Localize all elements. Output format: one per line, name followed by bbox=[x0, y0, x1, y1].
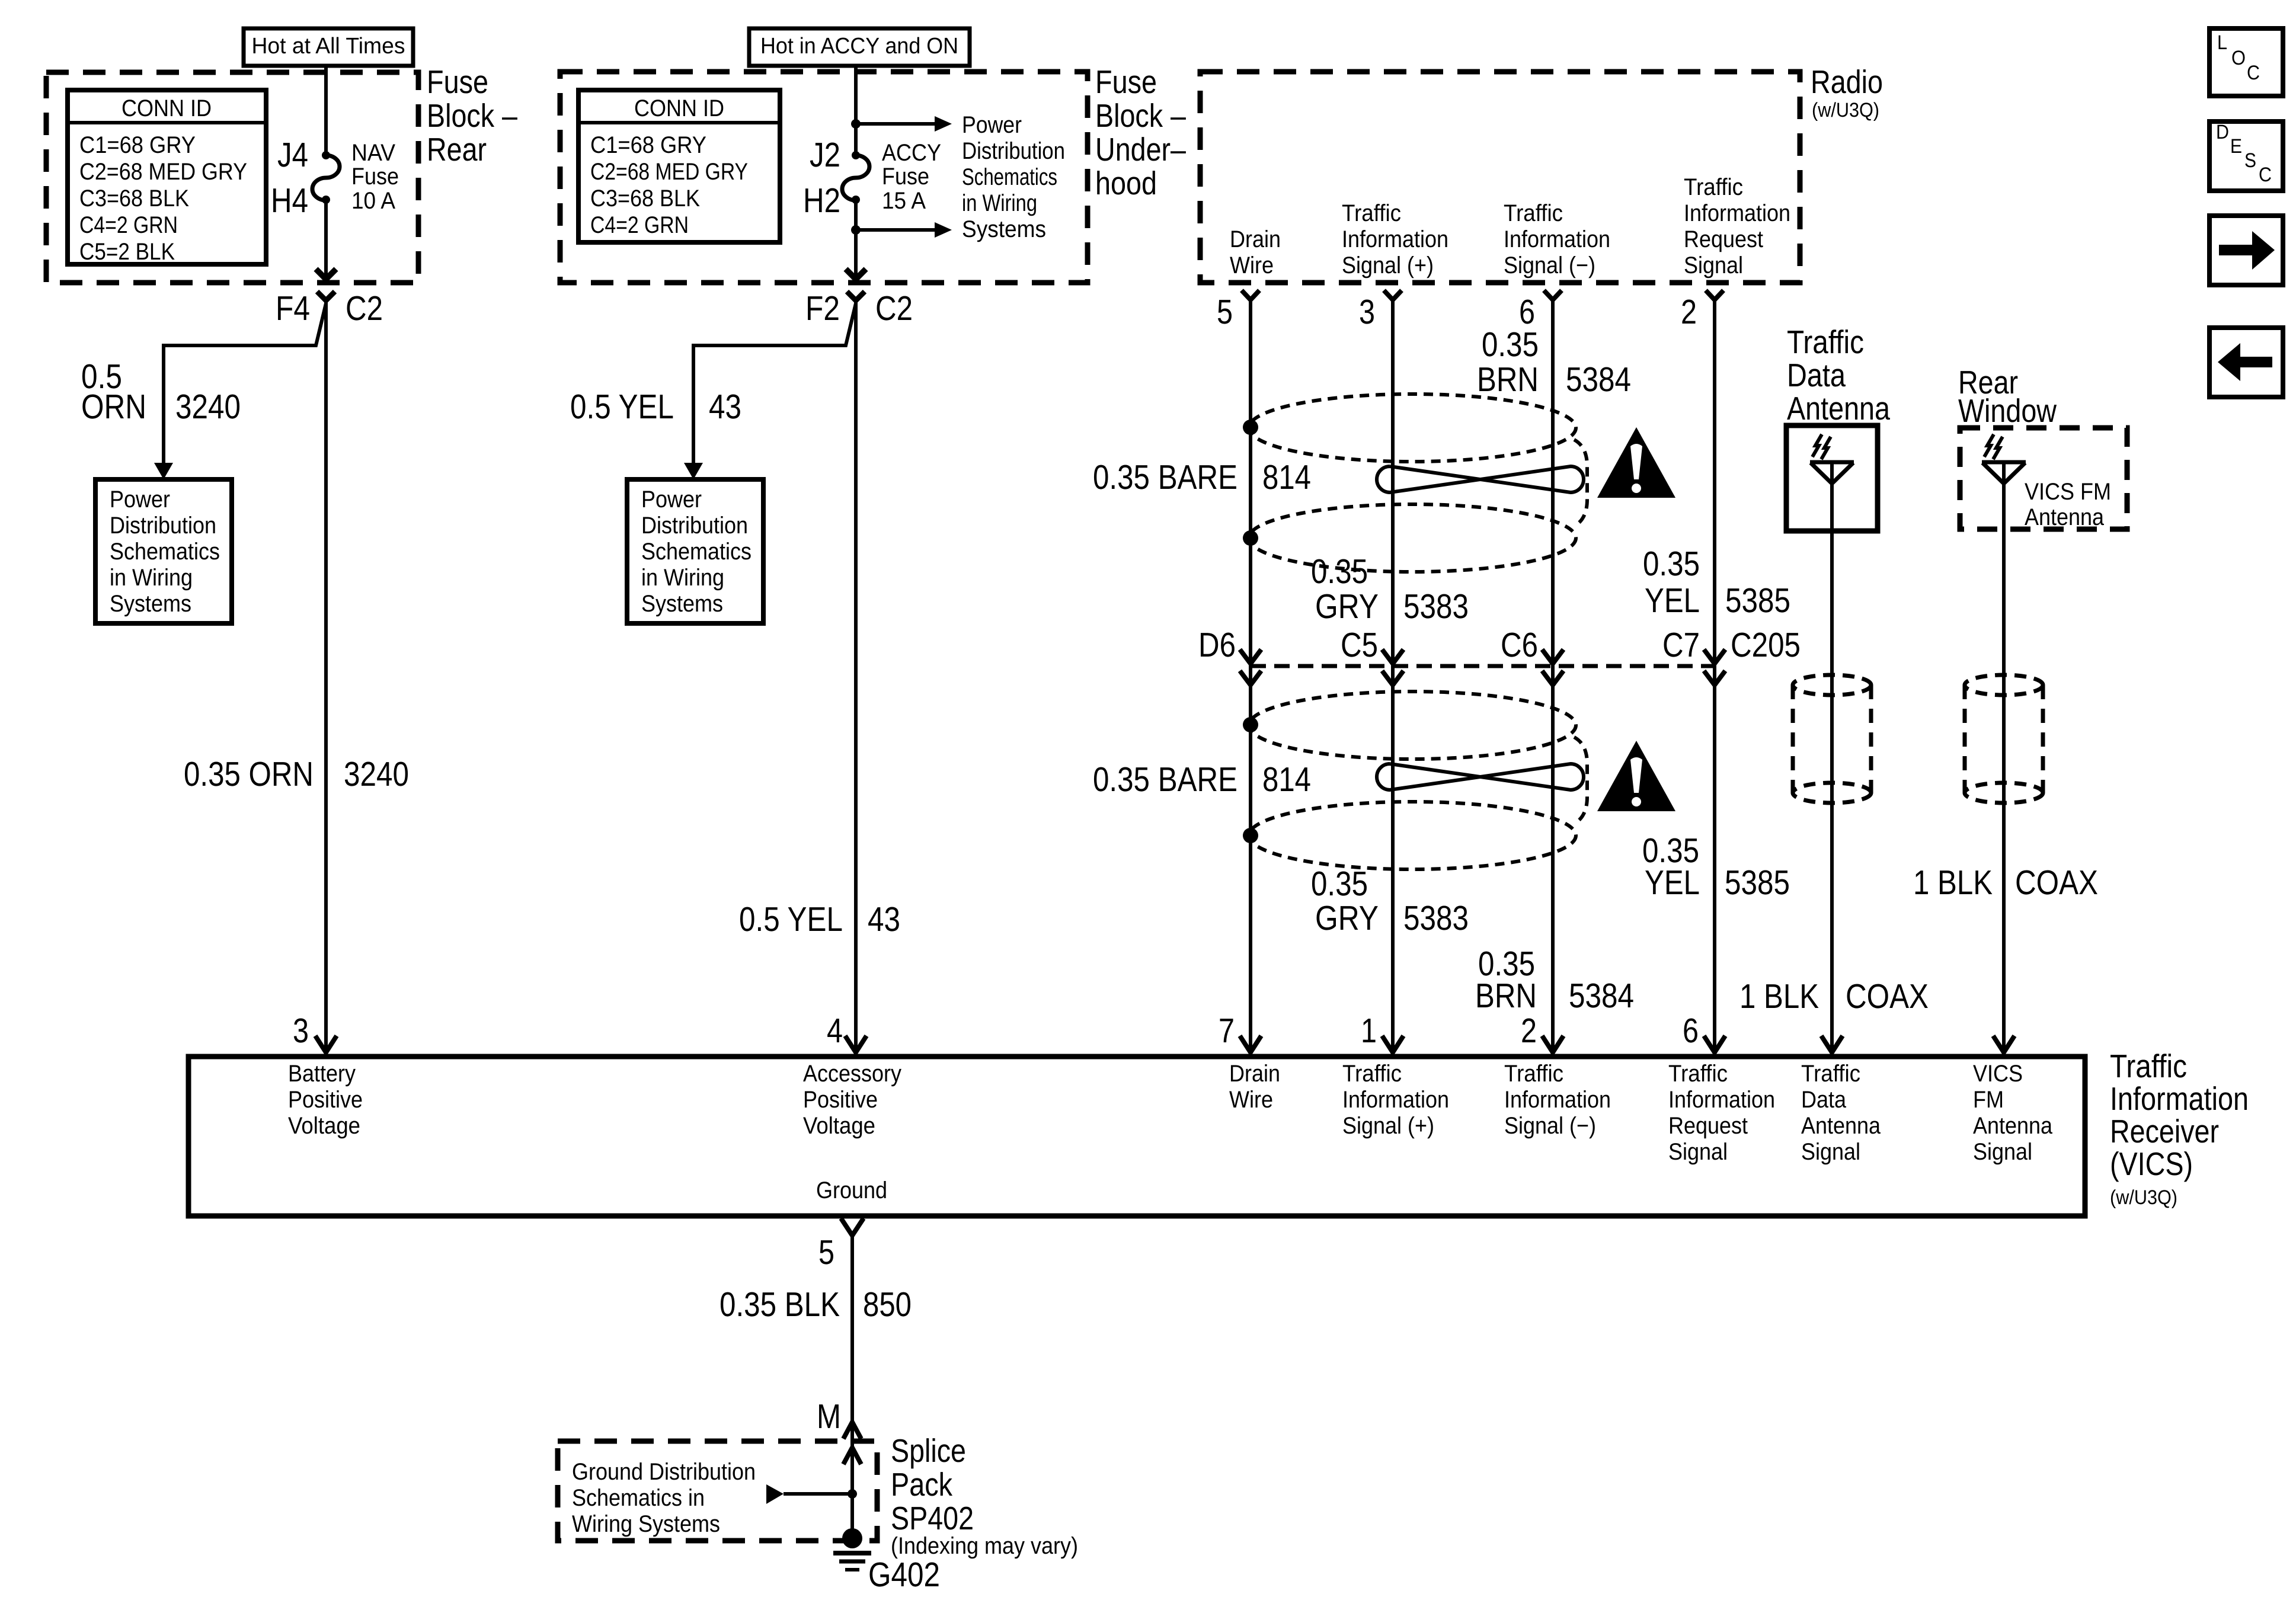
svg-text:Power: Power bbox=[962, 112, 1022, 138]
svg-text:3: 3 bbox=[1359, 293, 1375, 331]
svg-text:in Wiring: in Wiring bbox=[641, 565, 724, 591]
svg-text:0.35 BARE: 0.35 BARE bbox=[1093, 760, 1237, 799]
svg-text:Signal: Signal bbox=[1801, 1139, 1860, 1165]
svg-text:1 BLK: 1 BLK bbox=[1913, 863, 1993, 902]
svg-text:in Wiring: in Wiring bbox=[110, 565, 193, 591]
svg-text:VICS: VICS bbox=[1973, 1061, 2023, 1087]
svg-text:Wire: Wire bbox=[1230, 252, 1274, 279]
svg-text:0.5 YEL: 0.5 YEL bbox=[739, 900, 843, 939]
svg-text:10 A: 10 A bbox=[351, 188, 395, 214]
svg-text:5384: 5384 bbox=[1566, 360, 1631, 399]
svg-text:Traffic: Traffic bbox=[1801, 1061, 1860, 1087]
svg-text:Voltage: Voltage bbox=[288, 1113, 360, 1139]
svg-text:ACCY: ACCY bbox=[882, 140, 941, 166]
svg-text:6: 6 bbox=[1683, 1012, 1699, 1050]
svg-text:0.35: 0.35 bbox=[1482, 325, 1539, 364]
svg-text:Data: Data bbox=[1787, 357, 1846, 393]
svg-text:Hot at All Times: Hot at All Times bbox=[252, 34, 405, 59]
svg-text:0.35 BLK: 0.35 BLK bbox=[720, 1285, 840, 1324]
svg-text:0.35: 0.35 bbox=[1311, 865, 1368, 903]
svg-text:GRY: GRY bbox=[1315, 899, 1379, 937]
svg-text:Signal (+): Signal (+) bbox=[1342, 1113, 1434, 1139]
svg-text:5383: 5383 bbox=[1403, 899, 1469, 937]
svg-text:4: 4 bbox=[827, 1012, 843, 1050]
svg-text:Fuse: Fuse bbox=[427, 63, 488, 100]
svg-text:YEL: YEL bbox=[1645, 863, 1700, 902]
svg-text:5: 5 bbox=[818, 1233, 834, 1272]
svg-text:814: 814 bbox=[1262, 458, 1311, 497]
svg-text:Under–: Under– bbox=[1095, 131, 1186, 168]
svg-text:Fuse: Fuse bbox=[1095, 63, 1157, 100]
svg-text:G402: G402 bbox=[868, 1555, 940, 1594]
svg-text:Antenna: Antenna bbox=[1801, 1113, 1881, 1139]
svg-text:(w/U3Q): (w/U3Q) bbox=[1812, 99, 1879, 121]
svg-text:J4: J4 bbox=[277, 136, 308, 174]
svg-text:Information: Information bbox=[1342, 1087, 1449, 1113]
svg-text:O: O bbox=[2231, 47, 2246, 69]
svg-text:J2: J2 bbox=[810, 136, 840, 174]
svg-text:GRY: GRY bbox=[1315, 587, 1379, 626]
svg-text:BRN: BRN bbox=[1475, 977, 1537, 1015]
svg-text:Window: Window bbox=[1958, 392, 2057, 429]
svg-text:Traffic: Traffic bbox=[2110, 1048, 2187, 1084]
svg-text:Information: Information bbox=[2110, 1080, 2249, 1117]
svg-text:43: 43 bbox=[709, 388, 741, 426]
svg-text:Traffic: Traffic bbox=[1504, 200, 1563, 226]
svg-text:(VICS): (VICS) bbox=[2110, 1145, 2193, 1182]
svg-text:Signal (−): Signal (−) bbox=[1504, 1113, 1596, 1139]
svg-text:L: L bbox=[2217, 31, 2227, 54]
svg-text:Signal: Signal bbox=[1668, 1139, 1728, 1165]
svg-text:Distribution: Distribution bbox=[110, 513, 216, 539]
svg-text:Information: Information bbox=[1504, 226, 1610, 252]
svg-text:C2: C2 bbox=[875, 289, 913, 328]
svg-text:Information: Information bbox=[1504, 1087, 1611, 1113]
svg-text:NAV: NAV bbox=[351, 140, 395, 166]
svg-text:Distribution: Distribution bbox=[641, 513, 748, 539]
svg-text:C4=2 GRN: C4=2 GRN bbox=[590, 212, 689, 238]
svg-text:43: 43 bbox=[868, 900, 900, 939]
svg-text:(Indexing may vary): (Indexing may vary) bbox=[891, 1533, 1078, 1559]
svg-text:Antenna: Antenna bbox=[1787, 390, 1890, 427]
svg-text:F4: F4 bbox=[276, 289, 310, 328]
svg-text:Systems: Systems bbox=[110, 591, 191, 617]
svg-text:C1=68 GRY: C1=68 GRY bbox=[590, 132, 706, 158]
svg-text:Positive: Positive bbox=[288, 1087, 363, 1113]
svg-text:2: 2 bbox=[1681, 293, 1697, 331]
svg-text:ORN: ORN bbox=[81, 388, 146, 426]
svg-text:CONN ID: CONN ID bbox=[634, 95, 724, 121]
svg-text:Signal (−): Signal (−) bbox=[1504, 252, 1595, 279]
svg-text:C5: C5 bbox=[1341, 626, 1378, 664]
svg-text:15 A: 15 A bbox=[882, 188, 926, 214]
svg-text:Battery: Battery bbox=[288, 1061, 356, 1087]
svg-text:M: M bbox=[817, 1397, 841, 1436]
svg-text:D: D bbox=[2216, 121, 2229, 143]
svg-text:FM: FM bbox=[1973, 1087, 2004, 1113]
svg-text:C: C bbox=[2259, 164, 2272, 186]
svg-text:Traffic: Traffic bbox=[1504, 1061, 1563, 1087]
svg-text:0.5 YEL: 0.5 YEL bbox=[570, 388, 674, 426]
svg-text:C2=68 MED GRY: C2=68 MED GRY bbox=[79, 159, 247, 185]
svg-text:3240: 3240 bbox=[175, 388, 241, 426]
svg-text:Schematics: Schematics bbox=[110, 539, 220, 565]
svg-text:Pack: Pack bbox=[891, 1466, 952, 1503]
svg-text:Rear: Rear bbox=[427, 131, 487, 168]
svg-text:814: 814 bbox=[1262, 760, 1311, 799]
svg-text:Traffic: Traffic bbox=[1787, 324, 1864, 360]
svg-text:0.35 ORN: 0.35 ORN bbox=[184, 755, 314, 793]
svg-text:Information: Information bbox=[1342, 226, 1448, 252]
svg-text:Fuse: Fuse bbox=[351, 164, 399, 190]
svg-text:850: 850 bbox=[863, 1285, 912, 1324]
svg-text:C4=2 GRN: C4=2 GRN bbox=[79, 212, 178, 238]
svg-text:Positive: Positive bbox=[803, 1087, 878, 1113]
svg-text:Wiring Systems: Wiring Systems bbox=[572, 1511, 720, 1537]
svg-text:Splice: Splice bbox=[891, 1432, 966, 1469]
svg-text:Data: Data bbox=[1801, 1087, 1847, 1113]
svg-text:Receiver: Receiver bbox=[2110, 1113, 2219, 1150]
svg-text:Power: Power bbox=[110, 486, 170, 513]
svg-text:C2: C2 bbox=[346, 289, 383, 328]
svg-text:S: S bbox=[2244, 149, 2256, 172]
svg-text:C7: C7 bbox=[1662, 626, 1700, 664]
svg-text:in Wiring: in Wiring bbox=[962, 190, 1037, 216]
svg-text:Signal (+): Signal (+) bbox=[1342, 252, 1434, 279]
svg-text:7: 7 bbox=[1219, 1012, 1235, 1050]
svg-text:Schematics: Schematics bbox=[641, 539, 752, 565]
svg-text:1 BLK: 1 BLK bbox=[1739, 977, 1819, 1016]
svg-text:C6: C6 bbox=[1501, 626, 1538, 664]
svg-text:Drain: Drain bbox=[1229, 1061, 1280, 1087]
svg-text:Voltage: Voltage bbox=[803, 1113, 875, 1139]
svg-text:Traffic: Traffic bbox=[1684, 174, 1743, 200]
svg-text:H2: H2 bbox=[803, 181, 840, 220]
svg-text:E: E bbox=[2230, 135, 2242, 158]
svg-text:1: 1 bbox=[1361, 1012, 1377, 1050]
svg-text:Radio: Radio bbox=[1811, 63, 1883, 100]
svg-text:COAX: COAX bbox=[2015, 863, 2098, 902]
svg-text:BRN: BRN bbox=[1477, 360, 1539, 399]
svg-text:Power: Power bbox=[641, 486, 702, 513]
svg-text:(w/U3Q): (w/U3Q) bbox=[2110, 1186, 2177, 1209]
svg-text:Information: Information bbox=[1668, 1087, 1775, 1113]
svg-text:Ground: Ground bbox=[816, 1177, 887, 1204]
svg-text:Schematics: Schematics bbox=[962, 164, 1057, 190]
svg-text:Request: Request bbox=[1668, 1113, 1748, 1139]
svg-text:Antenna: Antenna bbox=[1973, 1113, 2053, 1139]
svg-text:C: C bbox=[2247, 62, 2260, 84]
svg-text:H4: H4 bbox=[271, 181, 308, 220]
svg-text:Systems: Systems bbox=[962, 216, 1046, 242]
svg-text:0.35: 0.35 bbox=[1643, 545, 1700, 583]
svg-text:Antenna: Antenna bbox=[2025, 504, 2105, 530]
svg-text:Distribution: Distribution bbox=[962, 138, 1065, 164]
svg-text:Wire: Wire bbox=[1229, 1087, 1273, 1113]
svg-text:C1=68 GRY: C1=68 GRY bbox=[79, 132, 196, 158]
svg-text:Fuse: Fuse bbox=[882, 164, 929, 190]
svg-text:Traffic: Traffic bbox=[1342, 200, 1401, 226]
svg-text:5384: 5384 bbox=[1569, 977, 1634, 1015]
svg-text:VICS FM: VICS FM bbox=[2025, 479, 2111, 505]
svg-text:Drain: Drain bbox=[1230, 226, 1281, 252]
svg-text:Systems: Systems bbox=[641, 591, 723, 617]
svg-text:3: 3 bbox=[293, 1012, 309, 1050]
svg-text:Block –: Block – bbox=[427, 97, 517, 134]
svg-text:C3=68 BLK: C3=68 BLK bbox=[79, 185, 189, 212]
svg-text:0.35 BARE: 0.35 BARE bbox=[1093, 458, 1237, 497]
svg-text:Hot in ACCY and ON: Hot in ACCY and ON bbox=[760, 34, 958, 59]
svg-text:Signal: Signal bbox=[1973, 1139, 2032, 1165]
svg-text:C2=68 MED GRY: C2=68 MED GRY bbox=[590, 159, 748, 185]
svg-text:Block –: Block – bbox=[1095, 97, 1186, 134]
svg-text:hood: hood bbox=[1095, 165, 1157, 201]
svg-text:C205: C205 bbox=[1731, 626, 1801, 664]
svg-text:5: 5 bbox=[1217, 293, 1233, 331]
svg-text:COAX: COAX bbox=[1846, 977, 1929, 1016]
svg-text:D6: D6 bbox=[1198, 626, 1236, 664]
svg-text:2: 2 bbox=[1521, 1012, 1537, 1050]
svg-text:C5=2 BLK: C5=2 BLK bbox=[79, 239, 175, 265]
svg-text:Information: Information bbox=[1684, 200, 1790, 226]
svg-text:YEL: YEL bbox=[1645, 581, 1700, 620]
svg-text:Accessory: Accessory bbox=[803, 1061, 901, 1087]
svg-text:F2: F2 bbox=[805, 289, 840, 328]
svg-text:5385: 5385 bbox=[1725, 863, 1790, 902]
svg-text:0.35: 0.35 bbox=[1311, 552, 1368, 591]
svg-text:Schematics in: Schematics in bbox=[572, 1485, 705, 1511]
svg-text:Traffic: Traffic bbox=[1668, 1061, 1728, 1087]
svg-text:CONN ID: CONN ID bbox=[121, 95, 212, 121]
svg-text:C3=68 BLK: C3=68 BLK bbox=[590, 185, 700, 212]
svg-text:Traffic: Traffic bbox=[1342, 1061, 1402, 1087]
svg-text:Ground Distribution: Ground Distribution bbox=[572, 1459, 756, 1485]
svg-text:Signal: Signal bbox=[1684, 252, 1743, 279]
svg-text:SP402: SP402 bbox=[891, 1500, 974, 1537]
svg-text:5383: 5383 bbox=[1403, 587, 1469, 626]
svg-text:5385: 5385 bbox=[1725, 581, 1790, 620]
svg-text:Request: Request bbox=[1684, 226, 1763, 252]
svg-text:3240: 3240 bbox=[344, 755, 409, 793]
